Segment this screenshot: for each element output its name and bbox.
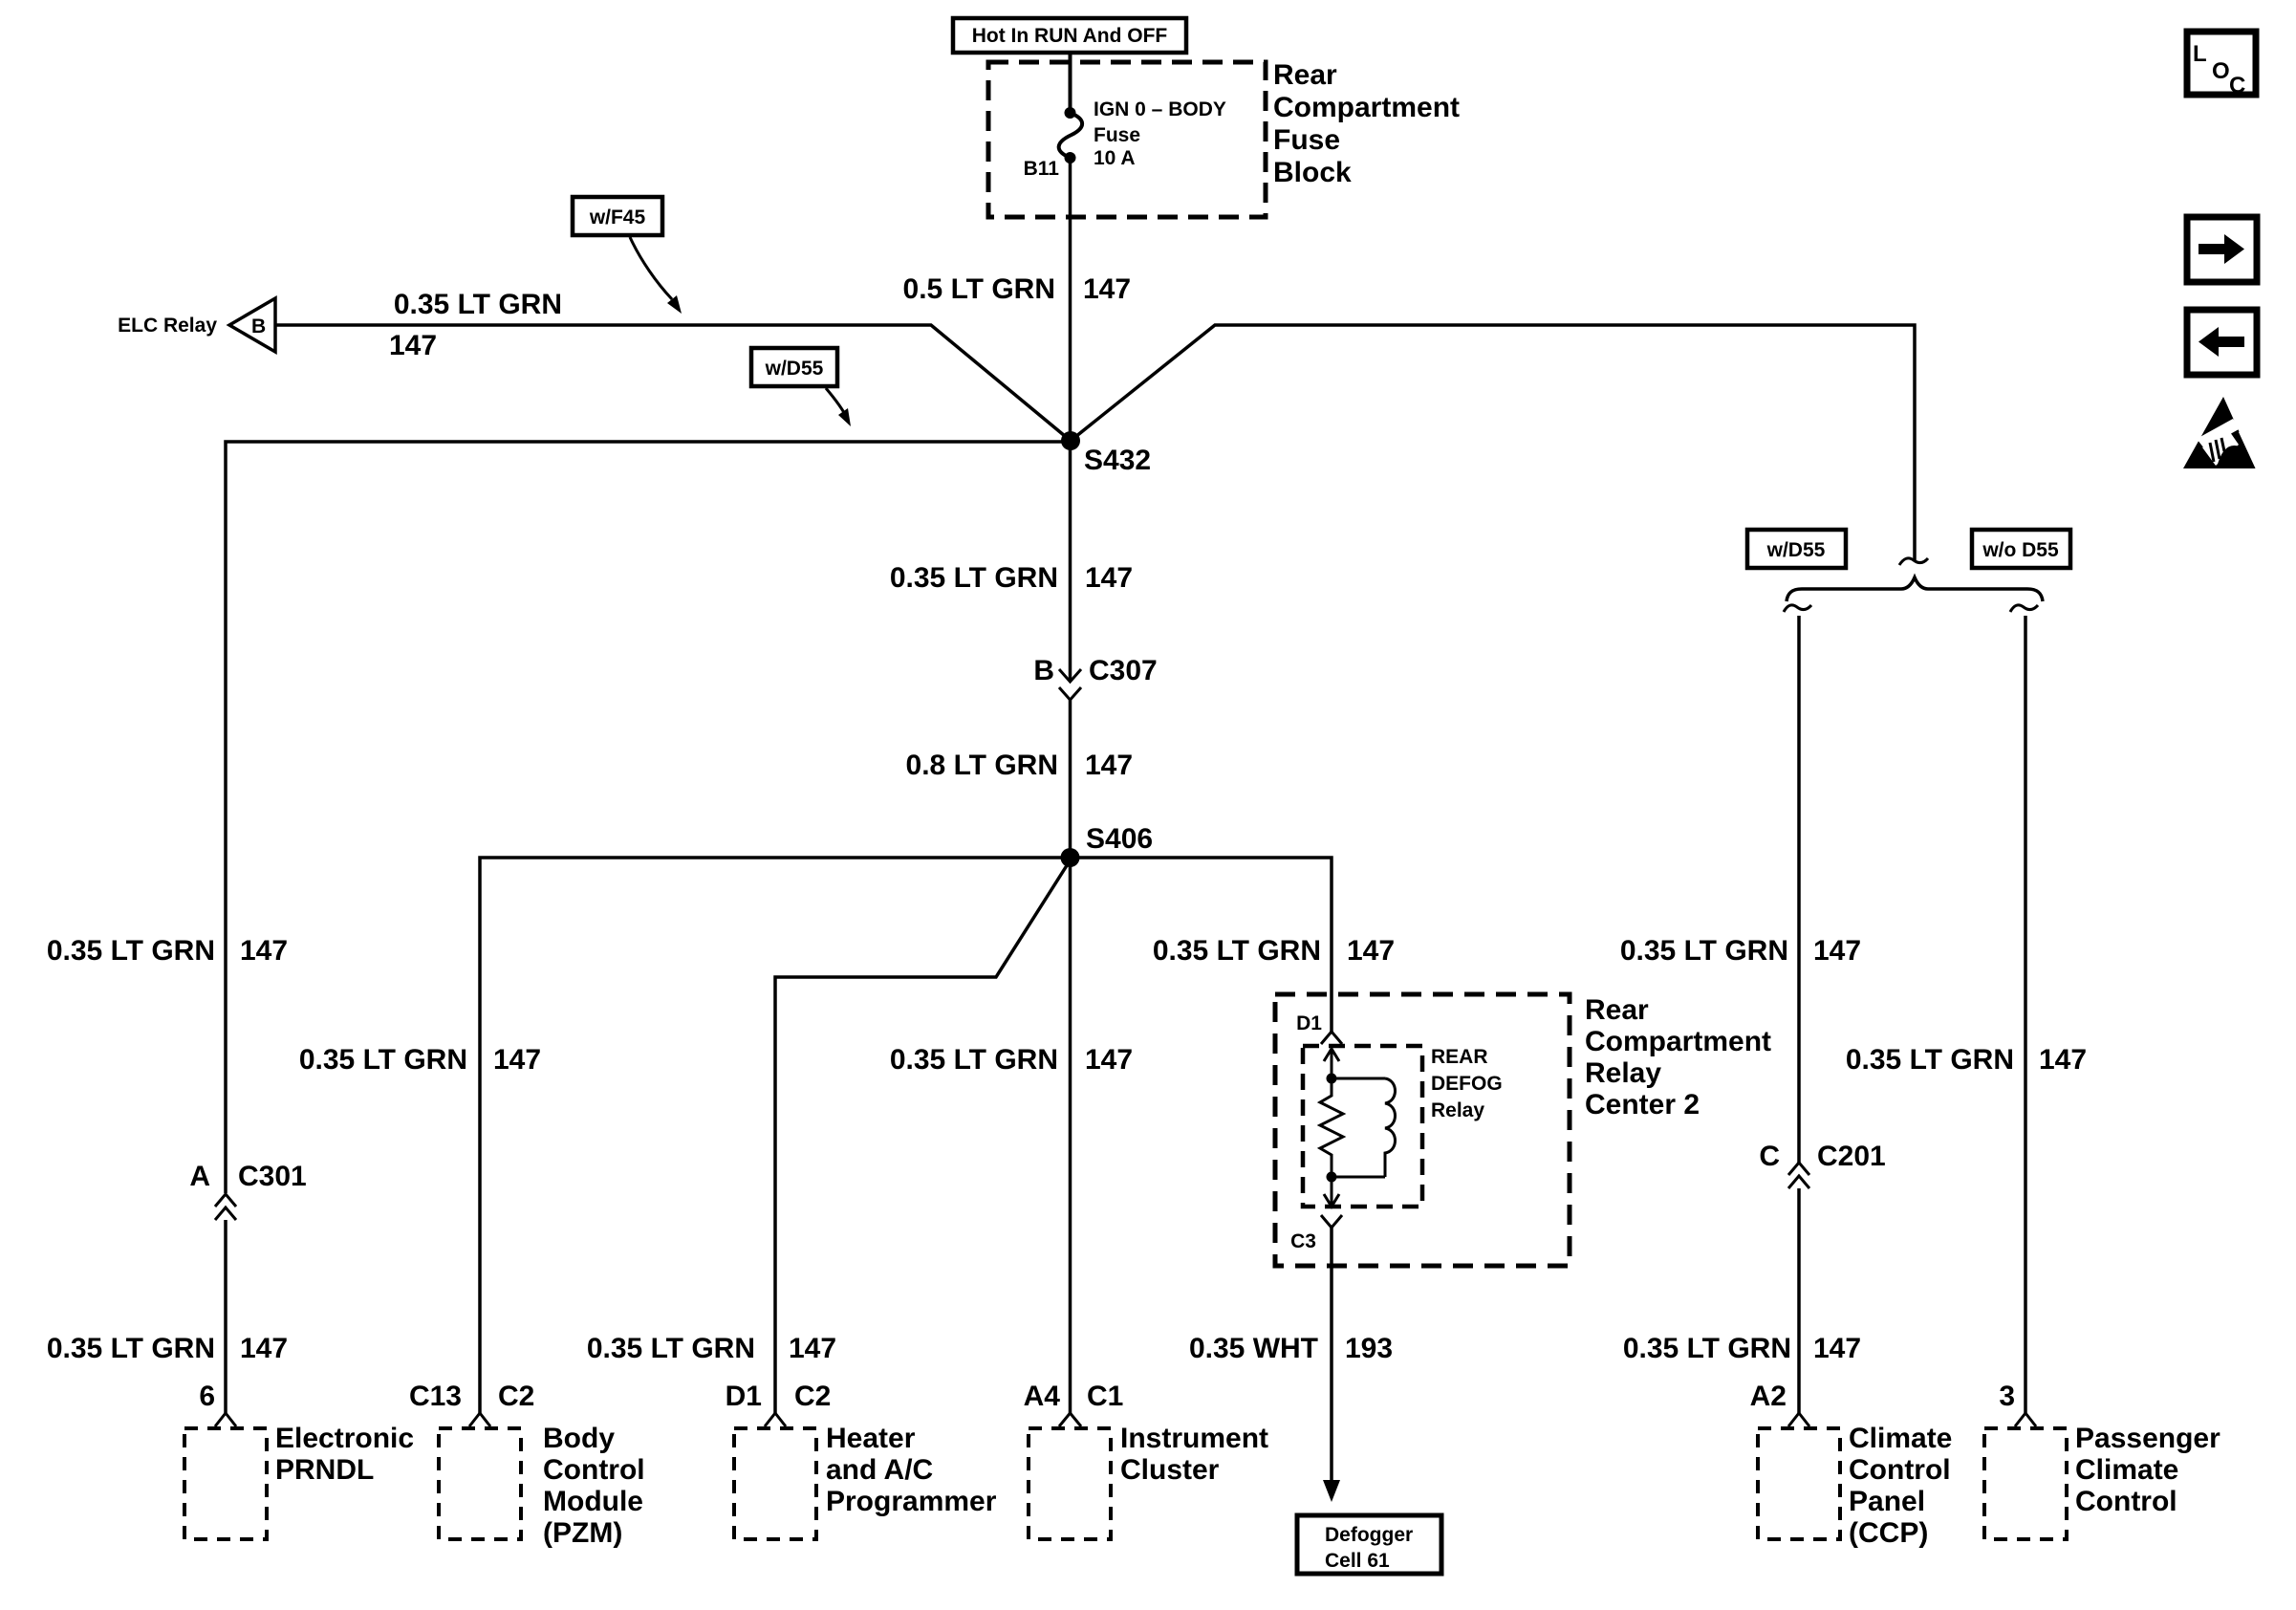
Rear Compartment Relay Center 2 (dashed box) — [1275, 994, 1570, 1266]
option flag w/D55 (middle) — [751, 348, 851, 426]
Body Control Module (dashed box) — [439, 1428, 521, 1539]
connector C307 pin B (inline, arrows down) — [1033, 655, 1157, 700]
svg-text:Climate: Climate — [2075, 1454, 2178, 1486]
connector chevron C3 — [1321, 1215, 1342, 1228]
fuse IGN 0 - BODY 10 A — [1059, 107, 1082, 163]
Electronic PRNDL (dashed box) — [184, 1428, 267, 1539]
option splice squiggle at riser end — [1899, 558, 1928, 565]
wire C201 to CCP — [1797, 1188, 1801, 1413]
Passenger Climate Control name — [2075, 1423, 2220, 1517]
svg-text:147: 147 — [1813, 935, 1861, 967]
Body Control Module name — [543, 1423, 645, 1549]
relay terminal arrow (up) at inner box top — [1324, 1049, 1339, 1078]
svg-text:Rear: Rear — [1273, 59, 1337, 91]
svg-text:C2: C2 — [498, 1381, 534, 1412]
svg-text:Control: Control — [543, 1454, 645, 1486]
svg-text:A2: A2 — [1750, 1381, 1787, 1412]
svg-text:C1: C1 — [1087, 1381, 1123, 1412]
wire: branch to ELC Relay (0.35 LT GRN 147) — [276, 325, 1071, 441]
svg-text:147: 147 — [1085, 750, 1133, 781]
svg-text:0.35 LT GRN: 0.35 LT GRN — [1623, 1333, 1791, 1364]
svg-text:0.35 LT GRN: 0.35 LT GRN — [1620, 935, 1788, 967]
svg-text:147: 147 — [1813, 1333, 1861, 1364]
svg-text:Programmer: Programmer — [826, 1486, 997, 1517]
svg-text:ELC Relay: ELC Relay — [118, 315, 217, 337]
svg-text:0.35 LT GRN: 0.35 LT GRN — [890, 562, 1058, 594]
wire: S406 left branch to Body Control Module — [480, 858, 1070, 1413]
svg-text:O: O — [2212, 58, 2230, 84]
svg-text:0.5 LT GRN: 0.5 LT GRN — [903, 273, 1055, 305]
svg-text:0.35 LT GRN: 0.35 LT GRN — [394, 289, 562, 320]
wire: S406 branch to Heater and A/C Programmer — [775, 859, 1071, 1413]
arrowhead into Defogger cell — [1323, 1480, 1340, 1502]
relay coil branch wire (bottom) — [1332, 1176, 1385, 1179]
Climate Control Panel (dashed box) — [1758, 1428, 1840, 1539]
splice squiggle at top of w/D55 drop — [1784, 605, 1811, 612]
svg-text:0.35 LT GRN: 0.35 LT GRN — [1846, 1044, 2014, 1076]
svg-text:Instrument: Instrument — [1120, 1423, 1268, 1454]
svg-text:C3: C3 — [1290, 1230, 1316, 1252]
svg-text:0.35 WHT: 0.35 WHT — [1189, 1333, 1318, 1364]
connector C201 pin C (inline, arrows up) — [1759, 1141, 1885, 1188]
connector chevron at Passenger Climate Control — [2015, 1413, 2036, 1426]
connector chevron at CCP — [1788, 1413, 1809, 1426]
svg-text:B11: B11 — [1024, 158, 1060, 180]
svg-text:and A/C: and A/C — [826, 1454, 933, 1486]
svg-text:147: 147 — [240, 935, 288, 967]
svg-text:Fuse: Fuse — [1273, 124, 1340, 156]
connector terminal B at ELC Relay (triangle) — [229, 298, 275, 352]
wire: S406 down to Instrument Cluster — [1069, 858, 1072, 1413]
svg-text:147: 147 — [389, 330, 437, 361]
svg-text:147: 147 — [1347, 935, 1395, 967]
svg-text:Relay: Relay — [1585, 1057, 1661, 1089]
Electronic PRNDL name — [275, 1423, 414, 1486]
wire: w/o D55 drop to Passenger Climate Control — [2024, 616, 2027, 1413]
connector chevron at Heater — [765, 1413, 786, 1426]
svg-text:Passenger: Passenger — [2075, 1423, 2220, 1454]
svg-text:IGN 0 – BODY: IGN 0 – BODY — [1094, 98, 1226, 120]
svg-text:C307: C307 — [1089, 655, 1158, 686]
svg-text:A4: A4 — [1024, 1381, 1061, 1412]
svg-text:0.35 LT GRN: 0.35 LT GRN — [890, 1044, 1058, 1076]
svg-text:147: 147 — [1085, 1044, 1133, 1076]
relay coil — [1385, 1078, 1396, 1177]
svg-text:147: 147 — [240, 1333, 288, 1364]
relay coil branch wire (top) — [1332, 1077, 1385, 1080]
svg-text:(CCP): (CCP) — [1849, 1517, 1928, 1549]
svg-text:Control: Control — [1849, 1454, 1951, 1486]
svg-text:S406: S406 — [1086, 823, 1153, 855]
svg-text:C301: C301 — [238, 1161, 307, 1192]
svg-text:Electronic: Electronic — [275, 1423, 414, 1454]
svg-text:0.8 LT GRN: 0.8 LT GRN — [906, 750, 1058, 781]
svg-text:147: 147 — [2039, 1044, 2087, 1076]
svg-text:B: B — [1033, 655, 1054, 686]
Defogger Cell 61 box — [1297, 1515, 1441, 1574]
svg-text:Fuse: Fuse — [1094, 124, 1140, 146]
junction dot (relay bottom) — [1327, 1172, 1337, 1183]
svg-text:Panel: Panel — [1849, 1486, 1925, 1517]
svg-text:w/o D55: w/o D55 — [1982, 539, 2059, 561]
svg-text:Body: Body — [543, 1423, 615, 1454]
svg-text:0.35 LT GRN: 0.35 LT GRN — [1153, 935, 1321, 967]
svg-text:C201: C201 — [1817, 1141, 1886, 1172]
svg-text:0.35 LT GRN: 0.35 LT GRN — [47, 935, 215, 967]
legend icon: arrow right — [2187, 217, 2257, 282]
svg-text:Climate: Climate — [1849, 1423, 1952, 1454]
svg-text:A: A — [189, 1161, 210, 1192]
svg-text:D1: D1 — [1296, 1012, 1322, 1034]
node S432 — [1061, 431, 1151, 476]
svg-text:Compartment: Compartment — [1273, 92, 1460, 123]
svg-text:w/D55: w/D55 — [765, 358, 824, 380]
REAR DEFOG Relay name — [1431, 1046, 1503, 1121]
wire 0.8 LT GRN C307 to S406 — [1069, 699, 1072, 858]
svg-text:w/F45: w/F45 — [589, 207, 646, 228]
LOC legend icon — [2187, 32, 2256, 98]
option flag w/F45 — [573, 197, 682, 314]
svg-text:D1: D1 — [726, 1381, 762, 1412]
relay terminal arrow (down) at inner box bottom — [1324, 1177, 1339, 1207]
wire: lower-left branch from S432 to Electronic PRNDL — [226, 442, 1071, 1193]
svg-text:147: 147 — [493, 1044, 541, 1076]
Heater and A/C Programmer name — [826, 1423, 997, 1517]
svg-text:w/D55: w/D55 — [1766, 539, 1826, 561]
splice squiggle at top of w/o D55 drop — [2010, 605, 2038, 612]
legend icon: arrow left — [2187, 310, 2257, 375]
svg-text:C13: C13 — [409, 1381, 462, 1412]
power source label box "Hot In RUN And OFF" — [953, 18, 1186, 53]
svg-text:0.35 LT GRN: 0.35 LT GRN — [47, 1333, 215, 1364]
svg-text:S432: S432 — [1084, 445, 1151, 476]
svg-text:Heater: Heater — [826, 1423, 916, 1454]
wire 0.35 WHT 193 from relay to Defogger — [1330, 1228, 1333, 1484]
option split brace — [1787, 577, 2043, 601]
Passenger Climate Control (dashed box) — [1984, 1428, 2067, 1539]
svg-text:Control: Control — [2075, 1486, 2177, 1517]
svg-text:Center 2: Center 2 — [1585, 1089, 1700, 1120]
wire: right branch from S432 up to option split riser — [1071, 325, 1915, 560]
connector chevron at Electronic PRNDL — [215, 1413, 236, 1426]
svg-text:Cell 61: Cell 61 — [1325, 1550, 1390, 1572]
svg-text:3: 3 — [1999, 1381, 2015, 1412]
wire: feed from Hot In RUN And OFF into fuse — [1069, 54, 1072, 111]
connector chevron D1 — [1321, 1032, 1342, 1044]
connector chevron at PZM — [469, 1413, 490, 1426]
fuse value label — [1094, 98, 1226, 169]
svg-text:REAR: REAR — [1431, 1046, 1488, 1068]
svg-text:PRNDL: PRNDL — [275, 1454, 374, 1486]
svg-text:193: 193 — [1345, 1333, 1393, 1364]
connector chevron at Instrument Cluster — [1059, 1413, 1081, 1426]
svg-text:C: C — [2229, 73, 2245, 98]
svg-text:Defogger: Defogger — [1325, 1524, 1413, 1546]
svg-text:10 A: 10 A — [1094, 147, 1136, 169]
wire 0.35 LT GRN S432 to C307 — [1069, 441, 1072, 682]
svg-text:147: 147 — [789, 1333, 836, 1364]
wire 0.5 LT GRN 147 from fuse B11 down to S432 — [1069, 158, 1072, 441]
node S406 — [1061, 823, 1154, 867]
rear compartment fuse block (dashed box) — [988, 62, 1266, 217]
junction dot (relay top) — [1327, 1074, 1337, 1084]
svg-text:Module: Module — [543, 1486, 643, 1517]
fuse block name label — [1273, 59, 1460, 188]
Instrument Cluster name — [1120, 1423, 1268, 1486]
REAR DEFOG Relay (inner dashed box) — [1303, 1046, 1422, 1207]
Instrument Cluster (dashed box) — [1029, 1428, 1111, 1539]
svg-text:147: 147 — [1085, 562, 1133, 594]
svg-text:0.35 LT GRN: 0.35 LT GRN — [587, 1333, 755, 1364]
option flag w/o D55 — [1972, 530, 2070, 568]
svg-text:Hot In RUN And OFF: Hot In RUN And OFF — [972, 25, 1168, 47]
legend icon: ESD sensitive symbol — [2183, 397, 2263, 469]
option flag w/D55 (right) — [1747, 530, 1846, 568]
svg-text:Block: Block — [1273, 157, 1352, 188]
svg-text:B: B — [251, 315, 266, 337]
connector C301 pin A (inline, arrows up) — [189, 1161, 306, 1220]
svg-text:0.35 LT GRN: 0.35 LT GRN — [299, 1044, 467, 1076]
relay resistor — [1320, 1078, 1343, 1177]
wire: S406 right branch to Rear Defog Relay — [1070, 858, 1332, 1032]
svg-text:6: 6 — [199, 1381, 215, 1412]
svg-text:Relay: Relay — [1431, 1099, 1484, 1121]
wire: w/D55 drop to Climate Control Panel — [1797, 616, 1801, 1163]
svg-text:Cluster: Cluster — [1120, 1454, 1220, 1486]
svg-text:Rear: Rear — [1585, 994, 1649, 1026]
svg-text:DEFOG: DEFOG — [1431, 1073, 1503, 1095]
svg-text:L: L — [2193, 41, 2207, 67]
svg-text:(PZM): (PZM) — [543, 1517, 622, 1549]
svg-text:147: 147 — [1083, 273, 1131, 305]
Climate Control Panel name — [1849, 1423, 1952, 1549]
svg-text:C2: C2 — [794, 1381, 831, 1412]
Rear Compartment Relay Center 2 name — [1585, 994, 1771, 1120]
svg-text:Compartment: Compartment — [1585, 1026, 1771, 1057]
wire 0.35 LT GRN C301 to Electronic PRNDL — [224, 1220, 227, 1413]
Heater and A/C Programmer (dashed box) — [734, 1428, 816, 1539]
svg-text:C: C — [1759, 1141, 1780, 1172]
